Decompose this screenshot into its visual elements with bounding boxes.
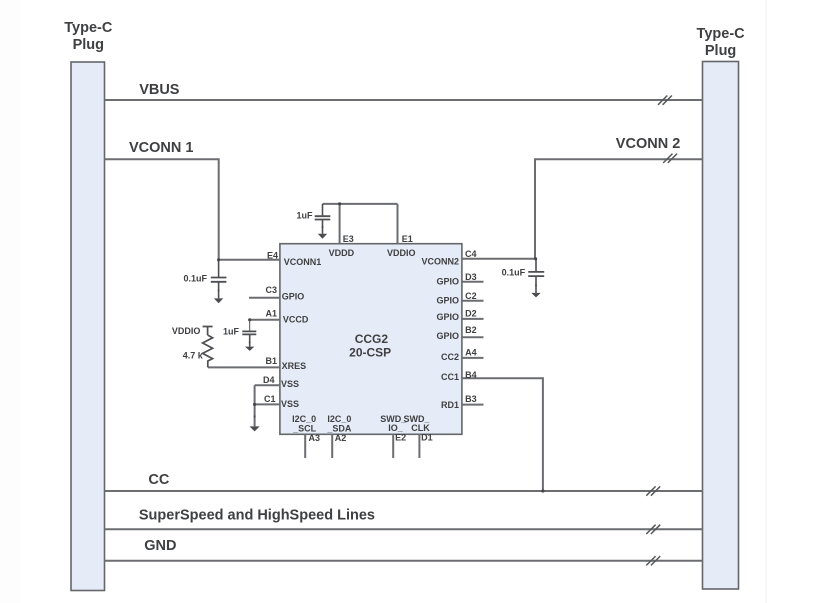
svg-text:Type-C: Type-C <box>697 26 746 42</box>
svg-text:VSS: VSS <box>281 379 299 389</box>
svg-text:D3: D3 <box>465 272 477 282</box>
svg-text:VCCD: VCCD <box>283 314 309 324</box>
svg-text:VCONN2: VCONN2 <box>421 257 459 267</box>
svg-text:GPIO: GPIO <box>436 312 459 322</box>
svg-text:20-CSP: 20-CSP <box>349 345 391 359</box>
svg-text:B3: B3 <box>465 394 477 404</box>
svg-text:C1: C1 <box>264 394 276 404</box>
svg-text:A2: A2 <box>335 433 347 443</box>
svg-text:B2: B2 <box>465 325 477 335</box>
svg-text:GND: GND <box>144 538 176 554</box>
svg-text:VCONN 1: VCONN 1 <box>129 140 193 156</box>
svg-text:A4: A4 <box>465 347 477 357</box>
svg-text:B4: B4 <box>465 370 477 380</box>
svg-text:GPIO: GPIO <box>436 277 459 287</box>
svg-text:GPIO: GPIO <box>436 331 459 341</box>
svg-text:CC1: CC1 <box>441 372 459 382</box>
svg-text:A1: A1 <box>265 309 277 319</box>
svg-text:1uF: 1uF <box>223 327 240 337</box>
svg-text:CCG2: CCG2 <box>355 332 389 346</box>
svg-text:B1: B1 <box>265 356 277 366</box>
svg-text:I2C_0: I2C_0 <box>327 414 351 424</box>
svg-text:VCONN 2: VCONN 2 <box>616 136 680 152</box>
svg-text:0.1uF: 0.1uF <box>502 267 526 277</box>
svg-text:VDDIO: VDDIO <box>387 248 416 258</box>
svg-text:E4: E4 <box>267 250 278 260</box>
svg-text:E3: E3 <box>343 234 354 244</box>
svg-text:D4: D4 <box>263 375 275 385</box>
svg-text:C3: C3 <box>265 285 277 295</box>
svg-text:SuperSpeed and HighSpeed Lines: SuperSpeed and HighSpeed Lines <box>139 508 375 524</box>
svg-text:D2: D2 <box>465 309 477 319</box>
svg-text:VSS: VSS <box>281 399 299 409</box>
svg-text:1uF: 1uF <box>296 211 313 221</box>
svg-text:CC2: CC2 <box>441 352 459 362</box>
svg-text:Type-C: Type-C <box>64 20 113 36</box>
svg-text:0.1uF: 0.1uF <box>183 273 207 283</box>
svg-text:A3: A3 <box>309 433 321 443</box>
svg-text:VDDIO: VDDIO <box>172 326 201 336</box>
svg-text:C2: C2 <box>465 291 477 301</box>
svg-text:VDDD: VDDD <box>329 248 355 258</box>
svg-text:4.7 k: 4.7 k <box>183 351 204 361</box>
svg-text:D1: D1 <box>421 433 433 443</box>
svg-text:VBUS: VBUS <box>139 82 180 98</box>
svg-text:C4: C4 <box>465 249 477 259</box>
svg-text:GPIO: GPIO <box>436 296 459 306</box>
svg-text:I2C_0: I2C_0 <box>292 414 316 424</box>
svg-text:XRES: XRES <box>282 361 307 371</box>
svg-text:Plug: Plug <box>705 43 736 59</box>
svg-text:Plug: Plug <box>73 37 104 53</box>
svg-text:VCONN1: VCONN1 <box>284 257 322 267</box>
svg-text:CC: CC <box>148 472 169 488</box>
svg-text:RD1: RD1 <box>441 400 459 410</box>
svg-text:E2: E2 <box>395 433 406 443</box>
svg-text:GPIO: GPIO <box>282 292 305 302</box>
svg-text:E1: E1 <box>402 234 413 244</box>
